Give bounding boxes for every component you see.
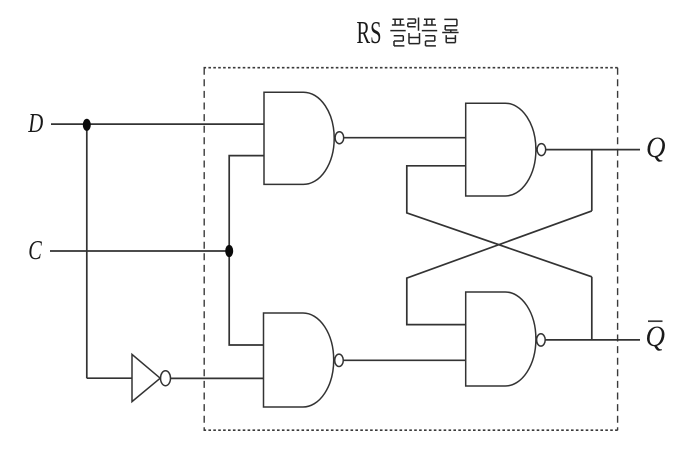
svg-text:RS: RS (357, 15, 382, 50)
립 (408, 18, 420, 44)
wire: D input to gate U1 (51, 123, 264, 125)
wire: inverter output to gate U2 lower input (170, 377, 263, 379)
svg-text:Q: Q (646, 131, 666, 164)
dashed box: RS flip-flop boundary, top edge (204, 67, 619, 69)
wire: U2 output to U4 lower input (344, 359, 466, 361)
dashed box left edge (203, 68, 205, 431)
wire: U1 output to U3 upper input (344, 137, 466, 139)
svg-text:C: C (28, 235, 42, 265)
output label Q-bar (646, 320, 666, 353)
inverter U5 (NOT gate on C path) (132, 354, 171, 401)
롭 (442, 19, 458, 42)
dashed box right edge (617, 68, 619, 431)
wire: C input line (50, 250, 229, 252)
wire: right feedback vertical lower (to Qbar line) (591, 277, 593, 340)
wire: vertical from D node down to inverter (86, 124, 88, 378)
NAND gate U3 (top-right) (466, 103, 546, 196)
dashed box bottom edge (204, 429, 619, 431)
title hangul "플립플롭" (drawn strokes) (390, 18, 458, 46)
svg-text:D: D (28, 108, 44, 138)
플 (422, 19, 437, 46)
node: junction dot on D line (83, 119, 91, 131)
NAND gate U1 (top-left) (264, 92, 344, 184)
NAND gate U2 (bottom-left) (264, 313, 344, 407)
wire: U4 output to Q-bar (545, 339, 640, 341)
wire: cross diagonal from Q side to U4 upper input (407, 211, 592, 325)
NAND gate U4 (bottom-right) (466, 292, 546, 386)
wire: cross diagonal from Qbar side to U3 lower input (407, 166, 592, 277)
svg-text:Q: Q (646, 320, 666, 353)
플 (390, 19, 405, 46)
wire: C vertical from U1 lower input down to U2 upper input (229, 156, 264, 345)
node: junction dot on C line (225, 245, 233, 257)
wire: U3 output to Q (546, 149, 640, 151)
wire: into inverter input (87, 377, 132, 379)
wire: right feedback vertical upper (from Q line) (591, 150, 593, 211)
